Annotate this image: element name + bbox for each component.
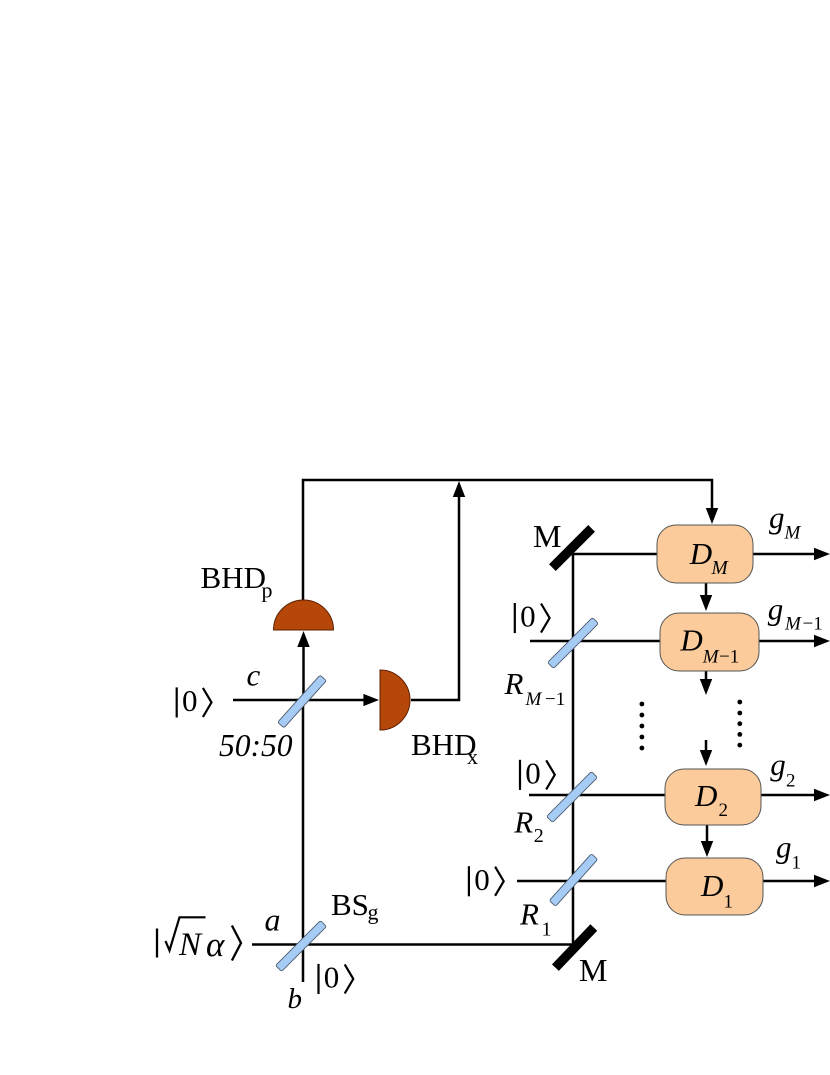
arrowhead right gM-1 <box>814 635 830 647</box>
svg-text:M: M <box>702 647 720 668</box>
wire arrow DM to DM-1 <box>705 583 708 597</box>
svg-text:x: x <box>467 744 478 769</box>
svg-text:g: g <box>776 830 792 865</box>
svg-text:M: M <box>579 952 607 988</box>
arrowhead right gM <box>814 548 830 560</box>
label ket0 row 1 <box>469 862 504 897</box>
svg-text:2: 2 <box>786 771 796 792</box>
svg-text:D: D <box>689 536 712 571</box>
svg-text:0: 0 <box>525 756 541 791</box>
label ket0 row M-1 <box>515 599 550 634</box>
svg-text:M: M <box>711 558 730 579</box>
wire beam c from ket0 through 50:50 to BHDx <box>233 699 366 702</box>
svg-text:0: 0 <box>324 960 340 995</box>
arrowhead down into DM <box>706 508 718 524</box>
beam splitter 50:50 <box>278 675 327 728</box>
wire arrow up into BHDp <box>302 646 305 700</box>
svg-text:BS: BS <box>331 887 369 922</box>
svg-text:0: 0 <box>182 683 198 718</box>
label ket0 mode c <box>177 683 212 718</box>
detector D1 box <box>666 858 763 915</box>
detector D2 box <box>665 769 761 825</box>
svg-text:b: b <box>288 983 303 1015</box>
svg-text:50:50: 50:50 <box>219 728 293 763</box>
detector BHDp dome <box>274 600 334 630</box>
wire right vertical between mirrors <box>572 554 575 945</box>
svg-text:M: M <box>784 523 802 544</box>
svg-text:BHD: BHD <box>201 560 266 595</box>
svg-text:g: g <box>368 900 379 925</box>
svg-text:1: 1 <box>724 892 734 913</box>
beam splitter R2 <box>547 772 598 823</box>
svg-text:2: 2 <box>534 825 544 847</box>
detector BHDx dome <box>380 670 410 730</box>
wire row 2 beam to D2 and out g2 <box>529 794 816 797</box>
svg-text:R: R <box>519 897 539 932</box>
arrowhead right g1 <box>814 875 830 887</box>
arrowhead up into BHDp <box>297 631 309 647</box>
wire row 1 beam to D1 and out g1 <box>517 880 816 883</box>
svg-text:M: M <box>533 518 561 554</box>
dots ellipsis right column <box>737 700 742 748</box>
svg-text:N: N <box>178 927 203 963</box>
detector DM-1 box <box>660 613 759 671</box>
svg-text:−1: −1 <box>545 689 565 710</box>
wire BHDx output up to top wire <box>411 496 459 700</box>
svg-text:1: 1 <box>792 853 802 874</box>
svg-text:2: 2 <box>719 800 729 821</box>
beam splitter BSg <box>276 921 327 972</box>
wire arrow into D2 <box>705 740 708 752</box>
svg-text:M: M <box>525 689 543 710</box>
svg-text:M: M <box>784 614 802 635</box>
beam splitter R1 <box>549 854 597 907</box>
svg-text:α: α <box>206 925 225 964</box>
wire row M beam to DM and out gM <box>573 553 816 556</box>
wire arrow D2 to D1 <box>706 825 709 843</box>
svg-text:−1: −1 <box>803 614 823 635</box>
svg-text:g: g <box>770 747 786 782</box>
svg-text:c: c <box>247 658 261 693</box>
svg-text:R: R <box>513 805 533 840</box>
wire arrow DM-1 down <box>705 671 708 681</box>
detector DM box <box>657 525 753 583</box>
beam splitter RM-1 <box>548 618 599 669</box>
svg-text:1: 1 <box>542 919 552 941</box>
svg-text:D: D <box>679 623 702 658</box>
svg-text:R: R <box>504 666 524 701</box>
svg-text:0: 0 <box>520 599 536 634</box>
wire top feedback from BHDp vertical to DM <box>303 480 712 600</box>
svg-text:D: D <box>700 868 723 903</box>
svg-text:0: 0 <box>474 862 490 897</box>
arrowhead right g2 <box>814 789 830 801</box>
label ket0 row 2 <box>520 756 555 791</box>
dots ellipsis left column <box>640 702 645 751</box>
svg-text:a: a <box>265 902 281 938</box>
wire bottom beam from sqrtN-alpha to bottom mirror <box>252 943 573 946</box>
wire vertical main mode a/b through both beam splitters <box>302 700 305 982</box>
arrowhead right into BHDx <box>363 694 379 706</box>
svg-text:p: p <box>262 578 273 603</box>
svg-text:g: g <box>768 592 784 627</box>
mirror M bottom <box>555 928 593 968</box>
label ket sqrtN alpha input <box>157 917 241 964</box>
wire row M-1 beam to DM-1 and out gM-1 <box>530 640 816 643</box>
svg-text:D: D <box>694 778 717 813</box>
arrowhead up into top wire <box>453 481 465 497</box>
svg-text:−1: −1 <box>719 647 739 668</box>
label ket0 mode b <box>319 960 354 995</box>
svg-text:g: g <box>769 500 785 535</box>
mirror M top <box>552 528 591 567</box>
